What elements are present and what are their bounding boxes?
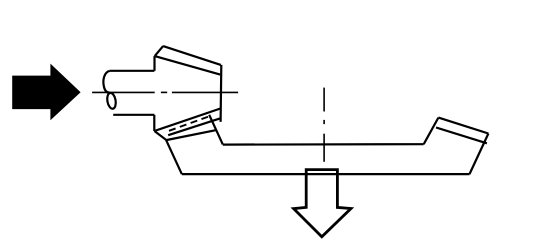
pipe left end cap curve [103, 71, 109, 93]
pipe top line [110, 70, 155, 72]
channel bottom edge [182, 173, 470, 175]
pipe mouth ellipse [106, 92, 117, 109]
cone right edge [220, 65, 223, 122]
channel top edge [223, 143, 424, 146]
channel right end wall [470, 134, 489, 175]
vertical centerline (dash-dot) [323, 88, 325, 162]
spout right edge [209, 115, 223, 145]
pipe bottom line [113, 114, 154, 116]
spout left edge / channel left end wall [154, 131, 181, 174]
cone bottom lower edge [167, 130, 217, 140]
cone top outer edge [163, 46, 221, 65]
flange step top vertical [153, 56, 155, 71]
cone bottom outer edge [154, 109, 220, 132]
outlet flow arrow (hollow, pointing down) [294, 170, 351, 237]
cone bottom hidden line (dashed) [169, 116, 210, 131]
horizontal centerline (dash-dot) [92, 91, 238, 93]
cone top inner edge [155, 56, 221, 75]
channel right bevel inner edge [436, 128, 487, 144]
cone bottom inner edge [168, 118, 220, 135]
flange ear (top-left of cone) [155, 46, 163, 56]
inlet flow arrow (solid black, pointing right) [12, 64, 80, 121]
channel right bevel outer edge [438, 118, 488, 134]
flange step bottom vertical [153, 115, 155, 131]
channel right rising edge [424, 118, 439, 145]
